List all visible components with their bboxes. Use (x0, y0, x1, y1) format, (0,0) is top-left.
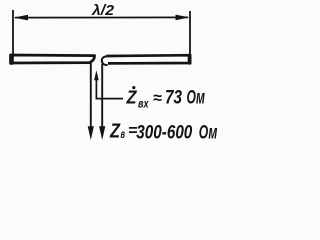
svg-text:в: в (121, 127, 126, 141)
dipole right arm end cap (188, 54, 192, 65)
feeder arrowhead left (88, 126, 94, 140)
label Zв = 300-600 Ом (109, 121, 217, 144)
label Zвх ≈ 73 Ом (126, 86, 205, 110)
svg-text:73: 73 (165, 88, 182, 109)
feeder wire left (90, 63, 92, 128)
dimension arrowhead right (176, 15, 190, 21)
svg-text:Ом: Ом (187, 88, 206, 109)
svg-text:300-600: 300-600 (136, 122, 192, 143)
svg-text:Z: Z (126, 88, 138, 108)
dipole left arm end cap (9, 54, 14, 65)
dimension arrowhead left (14, 15, 28, 21)
svg-text:Ом: Ом (199, 122, 218, 143)
svg-text:Z: Z (109, 121, 120, 143)
input impedance up arrow with leader (96, 79, 123, 99)
svg-text:вх: вх (138, 96, 150, 110)
feeder wire right (101, 64, 103, 128)
dipole right arm (tube) (107, 55, 191, 63)
dimension line lambda/2 (15, 16, 188, 18)
feeder arrowhead right (99, 126, 105, 140)
dipole right arm open mouth (102, 56, 108, 65)
dimension extension tick left (12, 10, 14, 55)
dimension extension tick right (189, 11, 191, 54)
svg-text:≈: ≈ (153, 90, 162, 107)
dipole left arm (tube) (11, 55, 95, 63)
svg-text:λ/2: λ/2 (91, 2, 115, 19)
